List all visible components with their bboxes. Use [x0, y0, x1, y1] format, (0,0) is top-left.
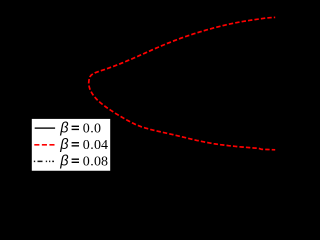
legend line beta=0.0 solid black [35, 127, 55, 129]
equals sign row3 [72, 158, 79, 160]
svg-text:β0.04: β0.04 [59, 137, 108, 153]
equals sign row1 [72, 125, 79, 127]
svg-text:β0.08: β0.08 [59, 153, 108, 169]
legend [30, 117, 114, 175]
legend line beta=0.04 red dashed [34, 144, 55, 146]
curve beta=0.04 red dashed [0, 0, 284, 206]
legend frame [31, 118, 111, 171]
equals sign row2 [72, 142, 79, 144]
legend line beta=0.08 black dash-dot-dot [34, 160, 55, 162]
